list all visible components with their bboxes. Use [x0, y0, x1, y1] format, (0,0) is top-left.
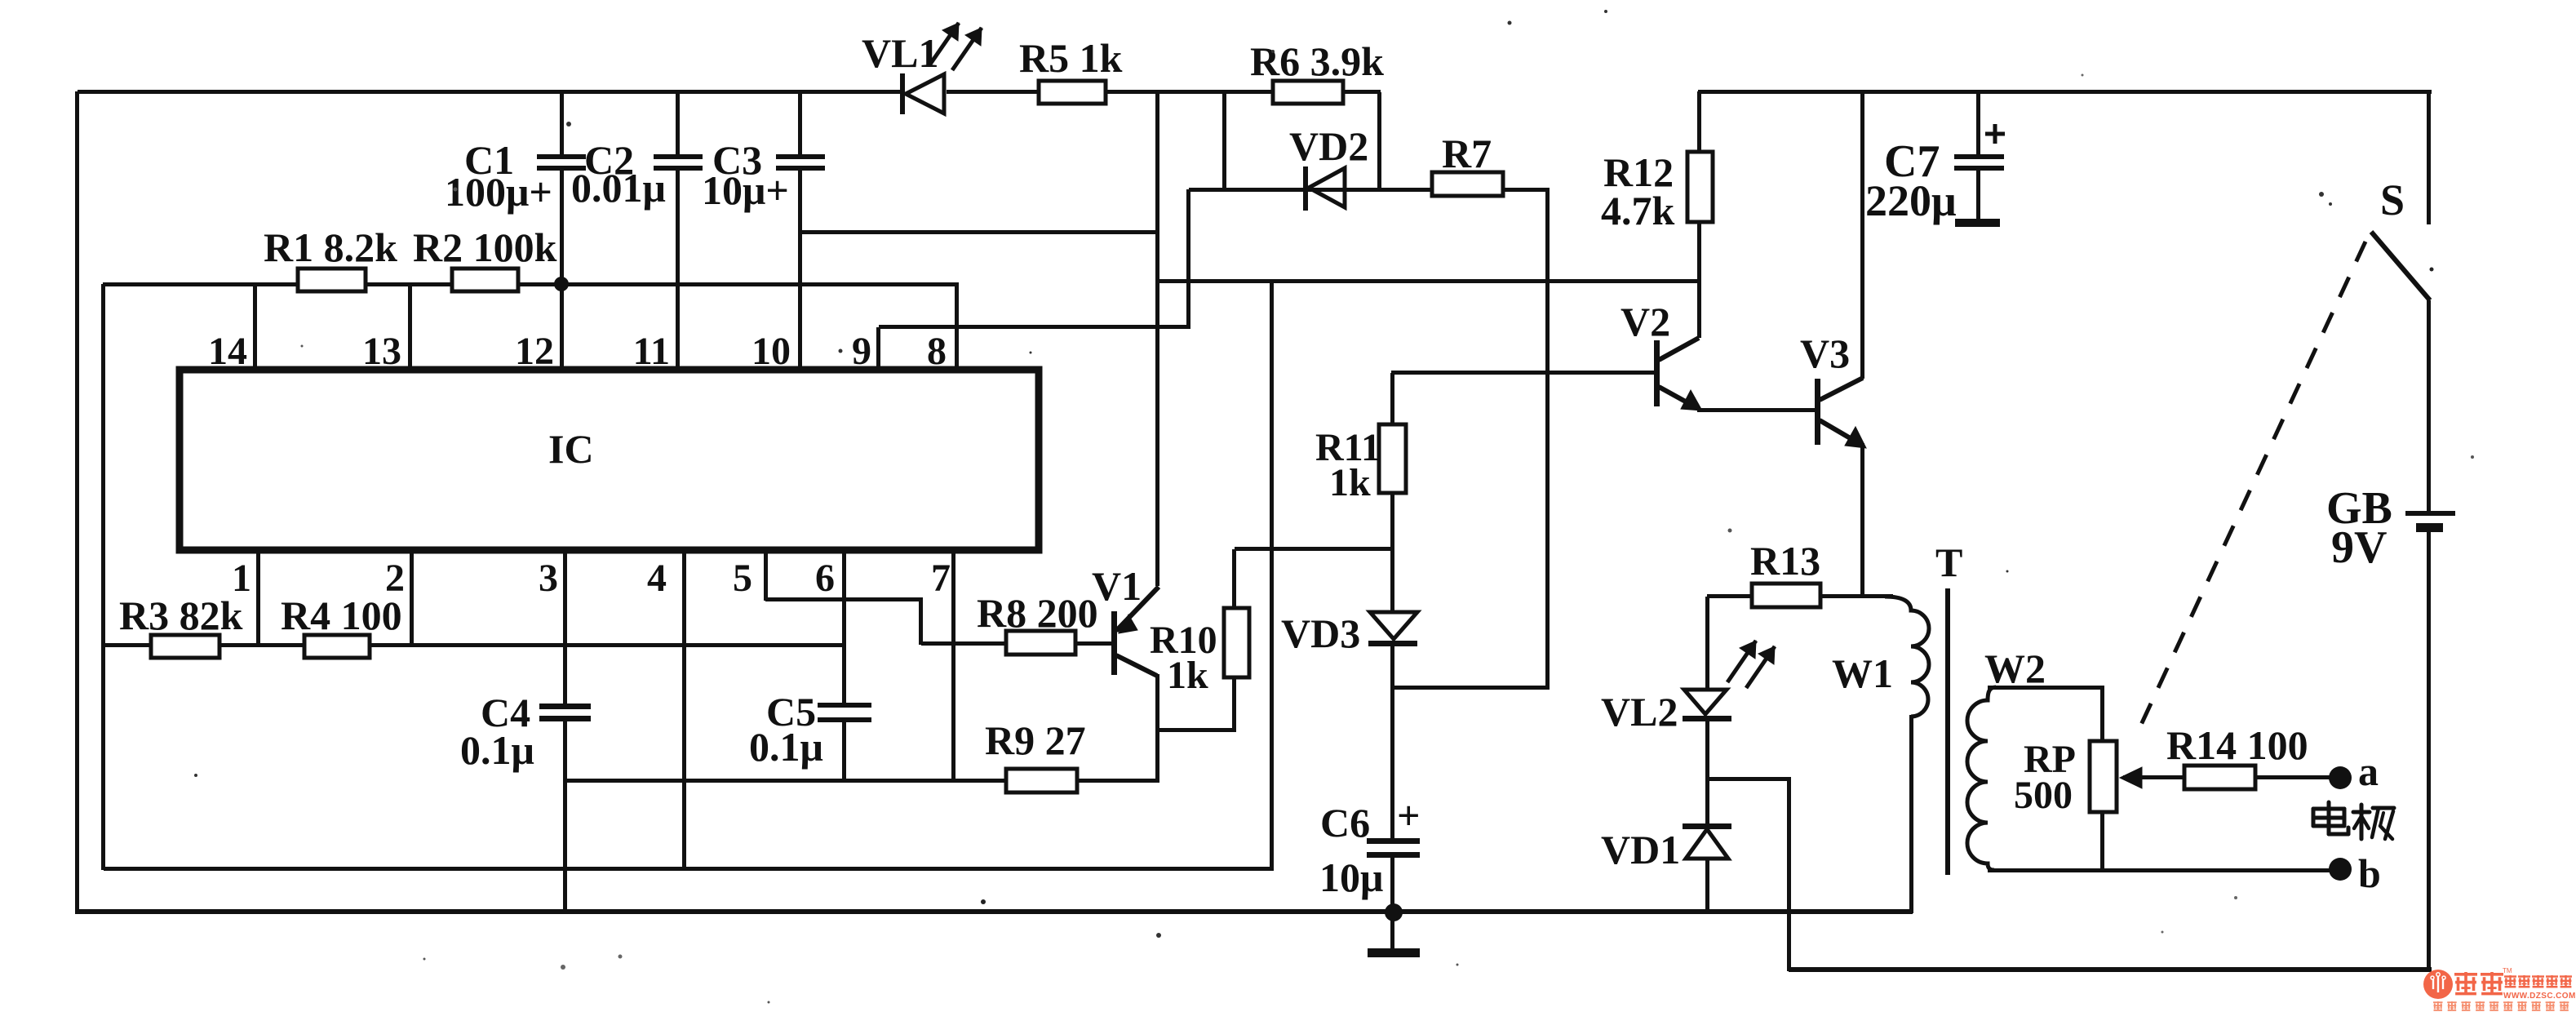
svg-text:0.1μ: 0.1μ	[460, 727, 534, 773]
svg-text:IC: IC	[548, 426, 594, 472]
svg-text:2: 2	[385, 557, 405, 600]
svg-text:R5 1k: R5 1k	[1019, 35, 1123, 81]
svg-text:1k: 1k	[1329, 461, 1371, 504]
svg-text:VL2: VL2	[1601, 689, 1678, 735]
svg-text:R9 27: R9 27	[985, 717, 1086, 763]
svg-text:WWW.DZSC.COM: WWW.DZSC.COM	[2503, 992, 2576, 1001]
svg-text:R1 8.2k: R1 8.2k	[264, 224, 397, 270]
svg-text:220μ: 220μ	[1865, 176, 1957, 225]
svg-text:+: +	[1397, 792, 1421, 838]
svg-text:1k: 1k	[1167, 654, 1208, 697]
svg-text:VL1: VL1	[862, 30, 938, 76]
svg-text:T: T	[1935, 539, 1962, 585]
svg-text:9V: 9V	[2331, 522, 2387, 573]
svg-text:b: b	[2358, 850, 2381, 896]
svg-text:R13: R13	[1750, 538, 1820, 584]
svg-text:V3: V3	[1800, 331, 1850, 376]
svg-text:100μ+: 100μ+	[445, 169, 552, 215]
svg-text:R4 100: R4 100	[281, 593, 402, 638]
svg-text:R3 82k: R3 82k	[119, 593, 243, 638]
svg-text:4: 4	[647, 557, 667, 600]
svg-text:3: 3	[539, 557, 558, 600]
svg-text:a: a	[2358, 748, 2379, 794]
svg-text:4.7k: 4.7k	[1601, 188, 1675, 233]
svg-text:W2: W2	[1984, 646, 2046, 691]
svg-text:V2: V2	[1621, 299, 1670, 344]
svg-text:R6 3.9k: R6 3.9k	[1250, 38, 1384, 84]
svg-text:1: 1	[232, 557, 251, 600]
svg-text:10μ+: 10μ+	[702, 167, 789, 213]
svg-text:R14 100: R14 100	[2166, 722, 2308, 768]
svg-text:V1: V1	[1092, 563, 1142, 609]
svg-text:R2 100k: R2 100k	[413, 224, 557, 270]
svg-text:R7: R7	[1442, 131, 1492, 176]
svg-text:R8 200: R8 200	[977, 590, 1098, 636]
svg-text:500: 500	[2014, 774, 2073, 817]
svg-text:W1: W1	[1832, 650, 1893, 696]
svg-text:TM: TM	[2503, 967, 2512, 974]
svg-text:5: 5	[733, 557, 752, 600]
svg-text:7: 7	[931, 557, 951, 600]
svg-text:10μ: 10μ	[1319, 854, 1383, 900]
svg-text:VD2: VD2	[1289, 123, 1368, 169]
svg-text:S: S	[2380, 175, 2405, 224]
svg-text:VD3: VD3	[1281, 610, 1360, 656]
svg-text:VD1: VD1	[1601, 827, 1680, 872]
svg-text:0.01μ: 0.01μ	[571, 165, 666, 211]
svg-text:6: 6	[815, 557, 835, 600]
svg-text:C6: C6	[1320, 800, 1370, 846]
svg-text:0.1μ: 0.1μ	[749, 724, 823, 770]
